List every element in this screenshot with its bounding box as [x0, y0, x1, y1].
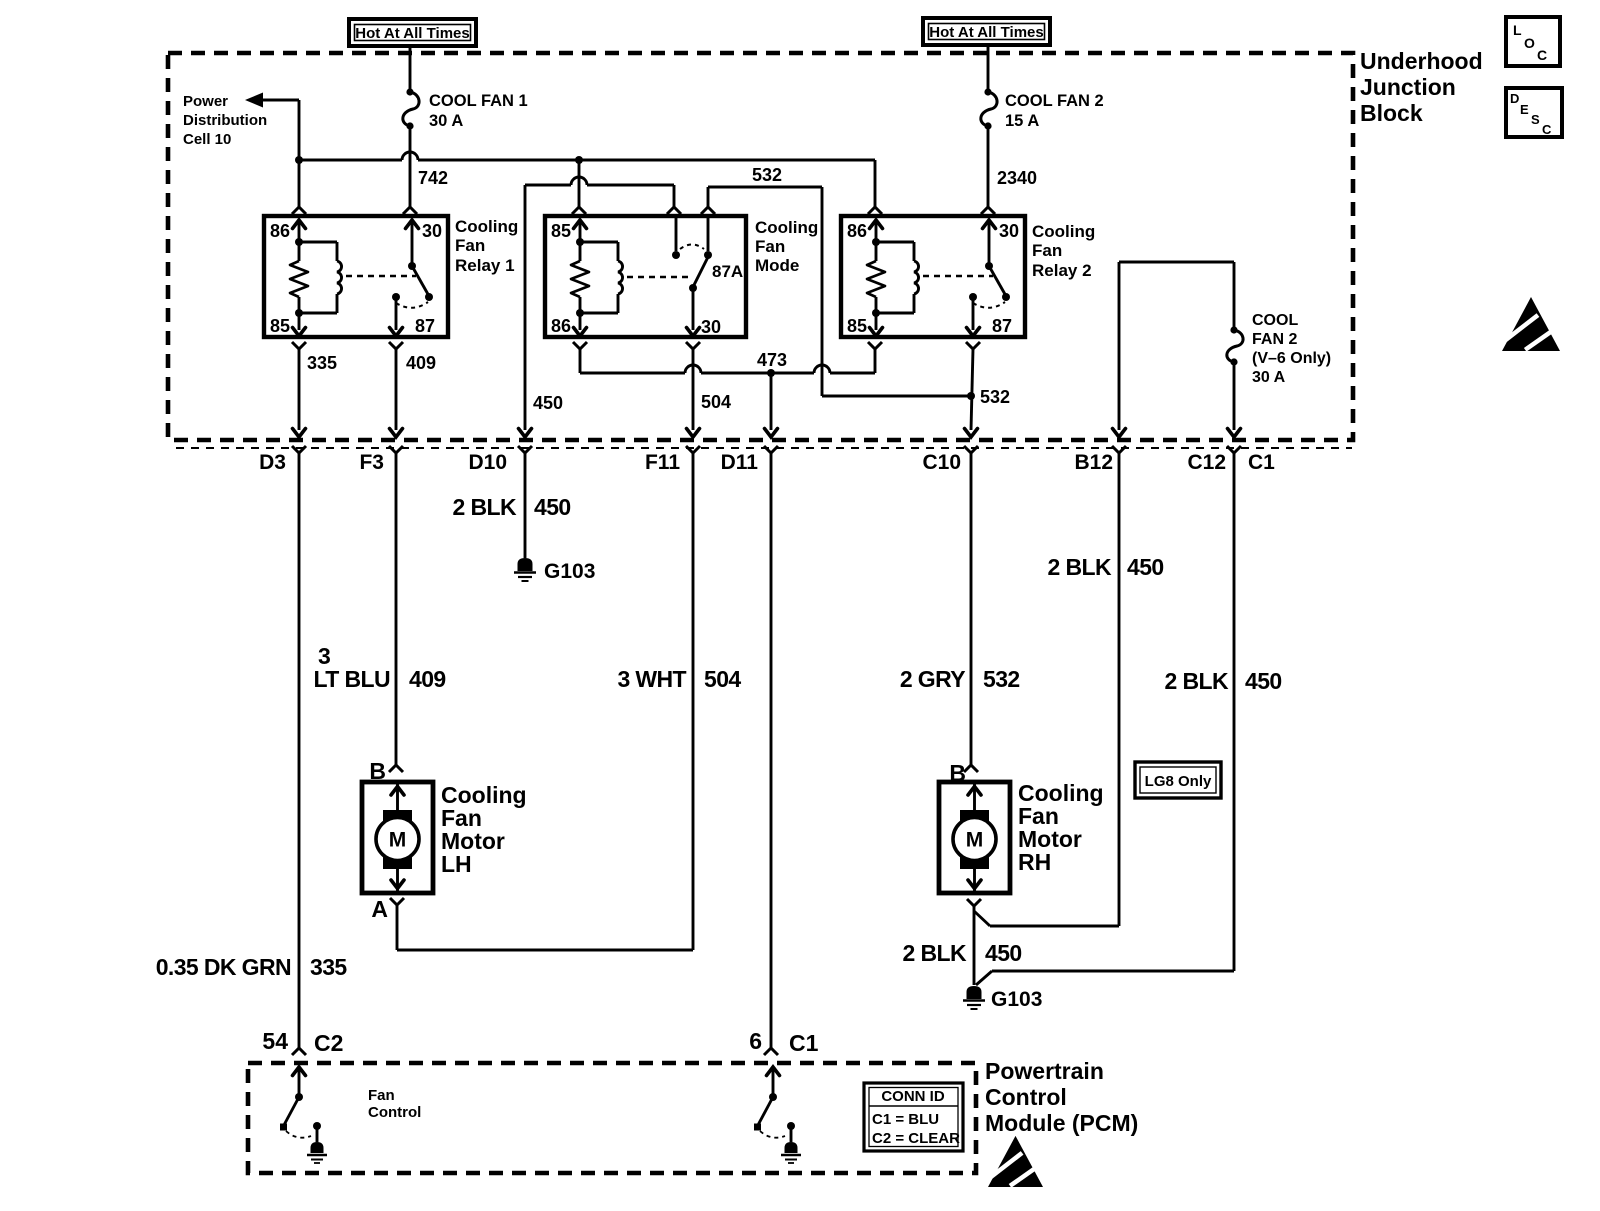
- svg-text:LT BLU: LT BLU: [314, 666, 390, 692]
- svg-text:2 GRY: 2 GRY: [900, 666, 965, 692]
- label Cooling Fan Relay 1: [455, 217, 518, 275]
- svg-text:409: 409: [406, 353, 436, 373]
- svg-text:C: C: [1537, 47, 1547, 63]
- PCM fan control driver (pin 54): [280, 1067, 327, 1163]
- connector F11 arrow+fork at junction block: [686, 429, 700, 454]
- wire 504 mode-30 to F11: [686, 342, 700, 430]
- relay U2 actuation dashed line: [627, 276, 689, 278]
- svg-text:G103: G103: [991, 988, 1042, 1011]
- svg-text:Fan: Fan: [1032, 241, 1062, 260]
- svg-text:30: 30: [999, 221, 1019, 241]
- svg-text:Relay 1: Relay 1: [455, 256, 515, 275]
- svg-text:532: 532: [983, 666, 1020, 692]
- relay U1 actuation dashed line: [346, 275, 416, 277]
- bus corner down to relay 2 pin 86: [868, 160, 882, 214]
- svg-text:87: 87: [415, 316, 435, 336]
- wire from Hot At All Times 2: [987, 45, 990, 89]
- label 532 top: [752, 165, 782, 185]
- svg-text:C2: C2: [314, 1030, 343, 1056]
- label Power Distribution Cell 10: [183, 93, 267, 148]
- svg-text:C1 = BLU: C1 = BLU: [872, 1111, 939, 1128]
- label Powertrain Control Module (PCM): [985, 1058, 1138, 1136]
- wire bus to relay 1 pin 86: [292, 160, 306, 214]
- svg-text:M: M: [966, 829, 984, 852]
- relay U3 switch pins 30/87: [967, 220, 1020, 336]
- svg-text:473: 473: [757, 350, 787, 370]
- svg-text:Fan: Fan: [368, 1087, 395, 1104]
- svg-text:2 BLK: 2 BLK: [903, 940, 967, 966]
- wire 335 relay1-85 to D3: [292, 342, 306, 430]
- label Cooling Fan Mode: [755, 218, 818, 275]
- wire 2340 fuse to relay 2 pin 30: [981, 126, 995, 214]
- svg-text:Fan: Fan: [755, 237, 785, 256]
- connector B12 arrow+fork at junction block: [1112, 429, 1126, 454]
- svg-text:D11: D11: [721, 451, 759, 474]
- svg-text:30 A: 30 A: [1252, 369, 1286, 386]
- wire C10 to motor RH pin B: [964, 453, 978, 772]
- label 2 GRY 532: [900, 666, 1020, 692]
- LG8 Only box: [1135, 762, 1221, 798]
- svg-text:C12: C12: [1187, 451, 1226, 474]
- label C1 (connector id right): [1248, 451, 1275, 474]
- label C12: [1187, 451, 1226, 474]
- label Cooling Fan Relay 2: [1032, 222, 1095, 280]
- label COOL FAN 2 (V-6 Only) 30 A: [1252, 312, 1331, 386]
- label 742: [418, 168, 448, 188]
- connector strip thin dashed line: [176, 447, 1352, 449]
- svg-text:450: 450: [534, 494, 571, 520]
- ESD warning triangle (right margin): [1502, 297, 1560, 351]
- svg-text:CONN ID: CONN ID: [881, 1088, 945, 1105]
- label F11: [645, 451, 680, 474]
- relay U1 switch pins 30/87: [390, 220, 443, 336]
- svg-text:Fan: Fan: [455, 236, 485, 255]
- wire 473 junction to D11: [770, 373, 773, 430]
- svg-text:A: A: [371, 896, 388, 922]
- svg-text:86: 86: [270, 221, 290, 241]
- label Underhood Junction Block: [1360, 48, 1483, 126]
- svg-text:C: C: [1542, 122, 1552, 137]
- wire bus to fan-mode pin 85: [572, 160, 586, 214]
- wire 532 from 87A pin to relay2-87 wire: [701, 187, 971, 396]
- svg-text:C10: C10: [922, 451, 961, 474]
- svg-text:Powertrain: Powertrain: [985, 1058, 1104, 1084]
- svg-text:532: 532: [752, 165, 782, 185]
- PCM fan control driver (pin 6): [754, 1067, 801, 1163]
- wire B12 upper run: [1119, 262, 1234, 430]
- svg-text:LG8 Only: LG8 Only: [1145, 773, 1212, 790]
- svg-text:450: 450: [1127, 554, 1164, 580]
- svg-text:450: 450: [533, 393, 563, 413]
- label 3 WHT 504: [617, 666, 741, 692]
- wire mode-86 to 473 junction to relay2-85: [573, 342, 882, 373]
- relay U2 switch posts and pin 30: [672, 218, 743, 337]
- ground G103 (left): [514, 558, 536, 581]
- relay U2 coil with pins 85/86: [551, 220, 623, 336]
- svg-text:FAN 2: FAN 2: [1252, 331, 1297, 348]
- svg-text:L: L: [1513, 22, 1522, 38]
- wire motor RH pin A to ground: [967, 899, 981, 985]
- connector C12 arrow+fork at junction block: [1227, 429, 1241, 454]
- svg-text:F11: F11: [645, 451, 680, 474]
- label Cooling Fan Motor RH: [1018, 780, 1104, 875]
- svg-text:COOL: COOL: [1252, 312, 1298, 329]
- svg-text:Cooling: Cooling: [1032, 222, 1095, 241]
- fuse COOL FAN 1 30A: [403, 88, 419, 129]
- svg-text:Relay 2: Relay 2: [1032, 261, 1092, 280]
- svg-text:S: S: [1531, 112, 1540, 127]
- label 504: [701, 392, 731, 412]
- svg-text:335: 335: [307, 353, 337, 373]
- wire C12 to ground G103 right: [976, 453, 1234, 985]
- label G103 (left): [544, 560, 595, 583]
- svg-text:D3: D3: [259, 451, 286, 474]
- svg-text:M: M: [389, 829, 407, 852]
- svg-text:Cell 10: Cell 10: [183, 131, 231, 148]
- svg-text:3 WHT: 3 WHT: [617, 666, 686, 692]
- relay U1 Cooling Fan Relay 1 box: [264, 216, 448, 337]
- Powertrain Control Module dashed border: [248, 1063, 976, 1173]
- bus wire y160 with hop over wire 742: [299, 152, 875, 160]
- svg-text:85: 85: [270, 316, 290, 336]
- motor LH pin A fork: [390, 898, 404, 905]
- DESC reference box: [1506, 88, 1562, 137]
- svg-text:6: 6: [749, 1028, 762, 1054]
- relay U3 actuation dashed line: [923, 275, 993, 277]
- connector D10 arrow+fork at junction block: [518, 429, 532, 454]
- svg-text:D: D: [1510, 91, 1519, 106]
- motor M1 Cooling Fan Motor LH: [362, 782, 433, 893]
- svg-text:E: E: [1520, 102, 1529, 117]
- svg-text:86: 86: [847, 221, 867, 241]
- svg-text:2340: 2340: [997, 168, 1037, 188]
- wire 742 fuse to relay 1 pin 30: [403, 126, 417, 214]
- relay U2 Cooling Fan Mode box: [545, 216, 746, 337]
- ESD warning triangle (PCM): [988, 1136, 1043, 1187]
- label 2 BLK 450 (D10): [453, 494, 571, 520]
- svg-text:15 A: 15 A: [1005, 112, 1039, 130]
- svg-text:C1: C1: [1248, 451, 1275, 474]
- svg-text:RH: RH: [1018, 849, 1051, 875]
- svg-text:Control: Control: [985, 1084, 1067, 1110]
- svg-text:C2 = CLEAR: C2 = CLEAR: [872, 1130, 960, 1147]
- svg-text:87A: 87A: [712, 262, 743, 281]
- label F3: [359, 451, 384, 474]
- label 2 BLK 450 (C12): [1165, 668, 1282, 694]
- label COOL FAN 2 15 A: [1005, 92, 1104, 130]
- label B (motor LH): [369, 758, 386, 784]
- wire F3 to motor LH pin B: [389, 453, 403, 772]
- junction dot bus/power-dist: [295, 156, 303, 164]
- label 6 / C1: [749, 1028, 818, 1056]
- label 54 / C2: [262, 1028, 343, 1056]
- svg-text:F3: F3: [359, 451, 384, 474]
- svg-text:O: O: [1524, 35, 1535, 51]
- junction dot 532/relay2-87: [967, 392, 975, 400]
- wire from Hot At All Times 1: [409, 46, 412, 89]
- svg-text:0.35 DK GRN: 0.35 DK GRN: [156, 954, 291, 980]
- label B (motor RH): [949, 760, 966, 786]
- label 0.35 DK GRN 335: [156, 954, 348, 980]
- label D10: [468, 451, 507, 474]
- label COOL FAN 1 30 A: [429, 92, 528, 130]
- motor M2 Cooling Fan Motor RH: [939, 782, 1010, 893]
- wire relay2-87 to C10: [966, 342, 980, 430]
- label 3 LT BLU 409: [314, 643, 446, 692]
- svg-text:532: 532: [980, 387, 1010, 407]
- svg-text:30: 30: [701, 317, 721, 337]
- ground G103 (right): [963, 986, 985, 1009]
- svg-text:54: 54: [262, 1028, 288, 1054]
- relay U1 coil with pins 86/85: [270, 220, 342, 336]
- svg-text:G103: G103: [544, 560, 595, 583]
- label Cooling Fan Motor LH: [441, 782, 527, 877]
- label G103 (right): [991, 988, 1042, 1011]
- svg-text:(V–6 Only): (V–6 Only): [1252, 350, 1331, 367]
- svg-text:2 BLK: 2 BLK: [453, 494, 517, 520]
- svg-text:COOL FAN 1: COOL FAN 1: [429, 92, 528, 110]
- svg-text:504: 504: [701, 392, 731, 412]
- svg-text:Cooling: Cooling: [755, 218, 818, 237]
- svg-text:Power: Power: [183, 93, 228, 110]
- connector F3 arrow+fork at junction block: [389, 429, 403, 454]
- junction dot 473: [767, 369, 775, 377]
- label 409: [406, 353, 436, 373]
- svg-text:Hot At All Times: Hot At All Times: [929, 24, 1043, 41]
- Power Distribution arrow and wire: [245, 93, 299, 162]
- label D11: [721, 451, 759, 474]
- svg-text:504: 504: [704, 666, 741, 692]
- Hot At All Times box (right feed): [923, 18, 1050, 45]
- svg-text:Mode: Mode: [755, 256, 799, 275]
- svg-text:C1: C1: [789, 1030, 819, 1056]
- svg-text:450: 450: [985, 940, 1022, 966]
- CONN ID table: [864, 1083, 963, 1151]
- svg-text:B12: B12: [1074, 451, 1113, 474]
- label 2340: [997, 168, 1037, 188]
- wire V6 fuse to C12: [1233, 362, 1236, 430]
- svg-text:Underhood: Underhood: [1360, 48, 1483, 74]
- svg-text:COOL FAN 2: COOL FAN 2: [1005, 92, 1104, 110]
- Underhood Junction Block dashed border: [168, 53, 1353, 440]
- label Fan Control: [368, 1087, 421, 1121]
- wire C12 upper run to V6 fuse: [1233, 262, 1236, 330]
- svg-text:Control: Control: [368, 1104, 421, 1121]
- wire D3 to PCM pin 54: [292, 453, 306, 1055]
- wire B12 to motor RH pin A: [974, 453, 1119, 926]
- svg-text:30 A: 30 A: [429, 112, 463, 130]
- wire D11 to PCM pin 6: [764, 453, 778, 1055]
- relay U3 coil with pins 86/85: [847, 220, 919, 336]
- svg-text:Hot At All Times: Hot At All Times: [355, 25, 469, 42]
- label C10: [922, 451, 961, 474]
- Hot At All Times box (left feed): [349, 19, 476, 46]
- svg-text:Distribution: Distribution: [183, 112, 267, 129]
- label 473: [757, 350, 787, 370]
- wire 409 relay1-87 to F3: [389, 342, 403, 430]
- svg-text:Cooling: Cooling: [455, 217, 518, 236]
- junction dot bus/mode-85: [575, 156, 583, 164]
- fuse COOL FAN 2 15A: [981, 88, 997, 129]
- fuse COOL FAN 2 V-6 Only 30A: [1227, 326, 1243, 365]
- LOC reference box: [1506, 17, 1560, 66]
- label D3: [259, 451, 286, 474]
- svg-text:742: 742: [418, 168, 448, 188]
- relay U3 Cooling Fan Relay 2 box: [841, 216, 1025, 337]
- wire D10 to ground G103: [524, 453, 527, 558]
- label 335: [307, 353, 337, 373]
- svg-text:86: 86: [551, 316, 571, 336]
- label 2 BLK 450 (motor RH): [903, 940, 1022, 966]
- connector D3 arrow+fork at junction block: [292, 429, 306, 454]
- svg-text:LH: LH: [441, 851, 472, 877]
- svg-text:Module (PCM): Module (PCM): [985, 1110, 1138, 1136]
- label 2 BLK 450 (B12): [1048, 554, 1164, 580]
- svg-text:Junction: Junction: [1360, 74, 1456, 100]
- svg-text:85: 85: [847, 316, 867, 336]
- label 450 vertical run: [533, 393, 563, 413]
- svg-text:335: 335: [310, 954, 347, 980]
- label 532 at junction: [980, 387, 1010, 407]
- connector D11 arrow+fork at junction block: [764, 429, 778, 454]
- wire 450 horizontal with hop over mode-85 wire: [525, 177, 681, 430]
- svg-text:Block: Block: [1360, 100, 1423, 126]
- svg-text:D10: D10: [468, 451, 507, 474]
- wire F11 to motor LH pin A: [397, 453, 693, 950]
- label B12: [1074, 451, 1113, 474]
- svg-text:450: 450: [1245, 668, 1282, 694]
- svg-text:409: 409: [409, 666, 446, 692]
- svg-text:2 BLK: 2 BLK: [1048, 554, 1112, 580]
- svg-text:30: 30: [422, 221, 442, 241]
- svg-text:2 BLK: 2 BLK: [1165, 668, 1229, 694]
- label A (motor LH): [371, 896, 388, 922]
- svg-text:87: 87: [992, 316, 1012, 336]
- connector C10 arrow+fork at junction block: [964, 429, 978, 454]
- svg-text:85: 85: [551, 221, 571, 241]
